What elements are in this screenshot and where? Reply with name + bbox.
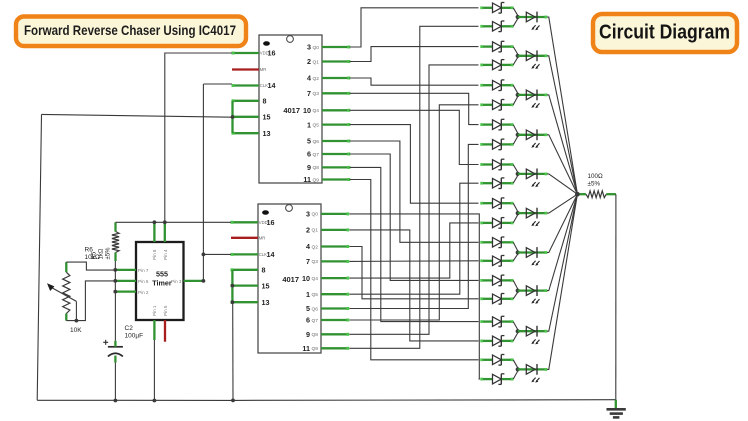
svg-text:10: 10 (302, 274, 310, 283)
svg-text:10: 10 (303, 106, 311, 115)
junction V+ at 555 pin8 (153, 220, 157, 224)
U2 left pin stub VDD (231, 221, 258, 223)
U2 left pin stub MR (231, 237, 258, 239)
LED4 (518, 129, 548, 148)
svg-text:16: 16 (268, 49, 276, 58)
svg-text:4: 4 (307, 74, 311, 83)
wire pot top to R5/pin7 junction (66, 262, 115, 270)
LED9 (518, 326, 548, 345)
junction rail at 555 pin7 (113, 268, 117, 272)
title badge Circuit Diagram (593, 14, 737, 52)
wire U1 Q0 to diode row (bus x=361.0) (350, 8, 479, 47)
U2 output pin stub Q8 (pin 9) (321, 333, 349, 335)
wire U1 Q8 to diode row (bus x=380.8) (350, 167, 479, 321)
svg-text:2: 2 (307, 57, 311, 66)
wire pin2 rail down to C2 (114, 292, 116, 341)
wire D10 cathode to LED5 anode junction (513, 176, 518, 184)
svg-text:Pin 3: Pin 3 (171, 279, 182, 284)
diode D14 (steering, LED7 lower) (480, 256, 513, 267)
wire D12 cathode to LED6 anode junction (513, 215, 518, 223)
IC U1 4017 body and pin labels (259, 35, 322, 184)
svg-text:1: 1 (307, 120, 311, 129)
diode D5 (steering, LED3 upper) (480, 80, 513, 91)
diode D9 (steering, LED5 upper) (480, 159, 513, 170)
svg-text:10kΩ: 10kΩ (85, 254, 100, 261)
svg-text:13: 13 (263, 129, 271, 138)
label R5 1kOhm 5% (rotated) (92, 247, 112, 260)
wire U1 pin15 to left rail (42, 114, 233, 117)
wire U1 Q3 to diode row (bus x=468.7) (350, 93, 479, 124)
svg-text:Forward Reverse Chaser Using I: Forward Reverse Chaser Using IC4017 (24, 22, 236, 38)
U1 output pin stub Q7 (pin 6) (322, 153, 350, 155)
svg-text:100µF: 100µF (125, 333, 144, 340)
potentiometer R6 10K body (63, 272, 70, 313)
wire D2 cathode to LED1 anode junction (513, 19, 518, 27)
svg-text:MR: MR (259, 235, 266, 240)
svg-text:VDD: VDD (260, 51, 269, 56)
U2 output pin stub Q2 (pin 4) (321, 245, 349, 247)
wire R7 to ground rail (615, 194, 617, 400)
wire LED9 cathode to common node (547, 194, 577, 331)
diode D13 (steering, LED7 upper) (480, 237, 513, 248)
svg-text:4017: 4017 (283, 106, 300, 115)
junction rail at 555 pin2 (113, 290, 117, 294)
U2 left pin stub pin 13 (231, 301, 258, 303)
U2 output pin stub Q1 (pin 2) (321, 229, 349, 231)
wire V+ rail (R5 top to U2 VDD) (116, 221, 232, 223)
wire U2 Q1 to diode row (bus x=409.8) (350, 230, 479, 341)
wire U2 pins 8-15-13 tie (231, 270, 233, 302)
R7 left stub (577, 193, 586, 195)
junction node LED7 anode (516, 250, 520, 254)
diode D15 (steering, LED8 upper) (480, 275, 513, 286)
U1 output pin stub Q3 (pin 7) (322, 92, 350, 94)
svg-text:6: 6 (306, 316, 310, 325)
U2 output pin stub Q6 (pin 5) (321, 307, 349, 309)
wire U2 Q8 to diode row (bus x=429.0) (350, 65, 479, 334)
LED5 (518, 169, 548, 188)
junction common cathode node overlay (575, 192, 580, 197)
junction U2 pin15 (231, 284, 235, 288)
junction node LED4 anode (516, 133, 520, 137)
IC U3 555 timer body and pin labels (136, 242, 184, 320)
svg-text:5: 5 (306, 304, 310, 313)
junction U1 pin15 (231, 115, 235, 119)
wire U1 Q2 to diode row (bus x=371.0) (350, 78, 479, 85)
svg-text:7: 7 (306, 257, 310, 266)
svg-text:MR: MR (260, 67, 267, 72)
svg-text:Pin 7: Pin 7 (138, 268, 149, 273)
svg-text:10K: 10K (70, 327, 82, 334)
svg-text:Pin 1: Pin 1 (152, 305, 157, 316)
diode D11 (steering, LED6 upper) (480, 198, 513, 209)
resistor R5 1k vertical (112, 232, 119, 253)
svg-text:VDD: VDD (259, 220, 268, 225)
diode D19 (steering, LED10 upper) (480, 355, 513, 366)
wire U2 Q6 to diode row (bus x=468.3) (350, 144, 479, 308)
svg-text:Q2: Q2 (312, 244, 319, 250)
U1 output pin stub Q6 (pin 5) (322, 140, 350, 142)
svg-text:±5%: ±5% (588, 180, 601, 187)
junction rail at 555 pin6 (113, 279, 117, 283)
diode D8 (steering, LED4 lower) (480, 139, 513, 150)
svg-text:Q7: Q7 (313, 152, 320, 158)
junction V+ at 555 pin4 / U1 VDD drop (163, 220, 167, 224)
resistor R5 top stub (114, 222, 116, 231)
junction node LED5 anode (516, 172, 520, 176)
U3 pin 5 stub (unconnected, red) (164, 320, 166, 342)
wire U2 Q4 to diode row (bus x=449.8) (350, 223, 479, 278)
U3 pin 8 stub (top, to V+ rail) (153, 222, 155, 242)
wire U1 Q1 to diode row (bus x=371.0) (350, 47, 479, 62)
junction node LED3 anode (516, 93, 520, 97)
left rail vertical (37, 114, 41, 400)
wire LED8 cathode to common node (547, 194, 577, 290)
U3 pin 7 stub (115, 269, 136, 271)
wire U1 VDD to V+ rail (165, 53, 232, 222)
svg-text:8: 8 (263, 97, 267, 106)
wire D4 cathode to LED2 anode junction (513, 58, 518, 65)
junction node LED8 anode (516, 289, 520, 293)
svg-text:9: 9 (306, 330, 310, 339)
diode D12 (steering, LED6 lower) (480, 218, 513, 229)
U1 left pin stub pin 13 (232, 132, 259, 134)
wire R5 bottom rail to 555 pins (114, 261, 116, 292)
svg-text:Pin 6: Pin 6 (138, 279, 149, 284)
U1 output pin stub Q0 (pin 3) (322, 46, 350, 48)
U3 pin 6 stub (115, 280, 136, 282)
junction ground at 555 pin1 (153, 399, 157, 403)
wire CLK bus to U1 CLK (203, 83, 232, 85)
U2 left pin stub CLK (231, 253, 258, 255)
svg-text:16: 16 (267, 218, 275, 227)
junction node LED9 anode (516, 329, 520, 333)
wire LED1 cathode to common node (547, 17, 577, 194)
wire U1 Q6 to diode row (bus x=399.9) (350, 141, 479, 242)
svg-text:6: 6 (307, 150, 311, 159)
U1 output pin stub Q4 (pin 10) (322, 109, 350, 111)
wire CLK bus to U2 CLK (203, 253, 231, 255)
junction node LED1 anode (516, 15, 520, 19)
svg-text:Q3: Q3 (313, 91, 320, 97)
svg-text:15: 15 (263, 113, 271, 122)
svg-text:8: 8 (262, 266, 266, 275)
wire D13 cathode to LED7 anode junction (513, 242, 518, 251)
svg-text:5: 5 (307, 137, 311, 146)
junction ground at C2 (114, 399, 118, 403)
wire LED4 cathode to common node (547, 135, 577, 194)
svg-text:15: 15 (262, 281, 270, 290)
wire U1 Q9 to diode row (bus x=370.8) (350, 180, 479, 360)
U1 left pin stub CLK (232, 84, 259, 86)
wire U2 Q7 to diode row (bus x=439.3) (350, 105, 479, 320)
resistor R5 bottom stub (114, 253, 116, 262)
svg-text:CLK: CLK (259, 252, 267, 257)
svg-text:9: 9 (307, 163, 311, 172)
diode D20 (steering, LED10 lower) (480, 374, 513, 385)
U2 output pin stub Q3 (pin 7) (321, 260, 349, 262)
wire LED10 cathode to common node (547, 194, 577, 369)
junction node LED6 anode (516, 211, 520, 215)
svg-text:Q8: Q8 (312, 332, 319, 338)
U2 output pin stub Q4 (pin 10) (321, 277, 349, 279)
svg-text:Pin 8: Pin 8 (152, 249, 157, 260)
diode D6 (steering, LED3 lower) (480, 100, 513, 111)
LED10 (518, 364, 548, 383)
svg-text:Q4: Q4 (313, 108, 320, 114)
wire U2 Q5 to diode row (bus x=459.8) (350, 183, 479, 294)
U2 output pin stub Q9 (pin 11) (321, 347, 349, 349)
LED1 (518, 12, 548, 31)
U1 left pin stub pin 15 (232, 116, 259, 118)
svg-text:Q0: Q0 (312, 212, 319, 218)
diode D18 (steering, LED9 lower) (480, 336, 513, 347)
U2 output pin stub Q5 (pin 1) (321, 293, 349, 295)
U1 output pin stub Q8 (pin 9) (322, 166, 350, 168)
LED8 (518, 285, 548, 304)
resistor R7 100 ohm (586, 191, 606, 198)
junction CLK bus at 555 pin3 (202, 279, 206, 283)
wire C2 to ground rail (114, 363, 116, 401)
wire U2 Q3 to diode row D14 (straight) (350, 260, 479, 263)
diode D7 (steering, LED4 upper) (480, 119, 513, 130)
svg-text:Q7: Q7 (312, 318, 319, 324)
wire U2 Q2 to diode row (bus x=362.0) (350, 247, 479, 299)
diode D17 (steering, LED9 upper) (480, 316, 513, 327)
wire U1 Q5 to diode row (bus x=410.4) (350, 125, 479, 204)
svg-text:1: 1 (306, 290, 310, 299)
wire 555 pin3 to CLK bus (202, 84, 204, 281)
svg-text:14: 14 (267, 250, 275, 259)
svg-text:13: 13 (262, 298, 270, 307)
svg-text:Pin 5: Pin 5 (163, 305, 168, 316)
LED7 (518, 247, 548, 266)
svg-text:Q4: Q4 (312, 276, 319, 282)
wire D6 cathode to LED3 anode junction (513, 97, 518, 105)
svg-text:2: 2 (306, 226, 310, 235)
U1 left pin stub VDD (232, 52, 259, 54)
U3 pin 3 output stub (184, 280, 204, 282)
junction node LED2 anode (516, 54, 520, 58)
svg-text:Q9: Q9 (313, 177, 320, 183)
diode D16 (steering, LED8 lower) (480, 294, 513, 305)
wire D20 cathode to LED10 anode junction (513, 371, 518, 379)
wire D15 cathode to LED8 anode junction (513, 280, 518, 289)
R7 right stub (606, 193, 616, 195)
wire D18 cathode to LED9 anode junction (513, 333, 518, 341)
svg-text:Q6: Q6 (313, 139, 320, 145)
ground rail bottom (37, 399, 616, 402)
potentiometer top stub (65, 262, 67, 272)
diode D10 (steering, LED5 lower) (480, 178, 513, 189)
wire U1 Q4 to diode row (bus x=459.3) (350, 110, 479, 164)
wire D19 cathode to LED10 anode junction (513, 360, 518, 368)
svg-text:Q8: Q8 (313, 165, 320, 171)
wire D5 cathode to LED3 anode junction (513, 85, 518, 93)
U1 output pin stub Q2 (pin 4) (322, 77, 350, 79)
wire D9 cathode to LED5 anode junction (513, 165, 518, 173)
junction node LED10 anode (516, 367, 520, 371)
junction common cathode node (575, 192, 580, 197)
svg-text:3: 3 (306, 210, 310, 219)
svg-text:11: 11 (302, 344, 310, 353)
ground symbol (607, 409, 626, 417)
potentiometer bottom stub (65, 314, 67, 321)
svg-text:Q1: Q1 (312, 228, 319, 234)
svg-text:Timer: Timer (152, 279, 172, 288)
svg-text:11: 11 (303, 175, 311, 184)
diode D4 (steering, LED2 lower) (480, 60, 513, 71)
svg-text:CLK: CLK (260, 83, 268, 88)
wire U2 pin13 to ground rail (232, 302, 234, 400)
wire pot wiper down to bottom terminal wire (75, 301, 77, 320)
wire D11 cathode to LED6 anode junction (513, 203, 518, 211)
wire pot bottom to pin6 rail (66, 281, 115, 321)
wire D8 cathode to LED4 anode junction (513, 137, 518, 145)
LED6 (518, 208, 548, 227)
svg-text:Pin 2: Pin 2 (138, 290, 149, 295)
svg-text:C2: C2 (125, 325, 134, 332)
LED3 (518, 90, 548, 109)
U1 left pin stub pin 8 (232, 100, 259, 102)
svg-text:100Ω: 100Ω (588, 173, 604, 180)
ground stub (615, 400, 617, 410)
wire LED3 cathode to common node (547, 95, 577, 194)
svg-text:Q5: Q5 (313, 122, 320, 128)
junction ground at U2 pin13 drop (231, 399, 235, 403)
svg-text:4017: 4017 (282, 275, 299, 284)
svg-text:Q0: Q0 (313, 45, 320, 51)
svg-text:Circuit Diagram: Circuit Diagram (599, 20, 730, 43)
svg-text:Q6: Q6 (312, 306, 319, 312)
svg-text:Q5: Q5 (312, 292, 319, 298)
U2 left pin stub pin 8 (231, 269, 258, 271)
junction pot wiper/bottom (75, 319, 79, 323)
U2 output pin stub Q7 (pin 6) (321, 319, 349, 321)
diode D1 (steering, LED1 upper) (480, 3, 513, 14)
wire D7 cathode to LED4 anode junction (513, 125, 518, 134)
wire U1 Q7 to diode row (bus x=390.2) (350, 154, 479, 280)
junction U2 pin13 (231, 300, 235, 304)
wire U1 pins 8-15-13 tie (231, 101, 233, 133)
U1 output pin stub Q1 (pin 2) (322, 60, 350, 62)
U1 output pin stub Q5 (pin 1) (322, 123, 350, 125)
U2 left pin stub pin 15 (231, 284, 258, 286)
U3 pin 2 stub (115, 290, 136, 292)
wire LED2 cathode to common node (547, 56, 577, 194)
wire LED7 cathode to common node (547, 194, 577, 252)
diode D2 (steering, LED1 lower) (480, 21, 513, 32)
svg-text:7: 7 (307, 89, 311, 98)
svg-text:Q3: Q3 (312, 259, 319, 265)
svg-text:Q2: Q2 (313, 76, 320, 82)
U1 left pin stub MR (232, 68, 259, 70)
wire LED5 cathode to common node (547, 174, 577, 194)
wire 555 pin1 to ground rail (153, 340, 155, 401)
wire U2 Q9 to diode row (bus x=419.8) (350, 26, 479, 348)
svg-text:Q9: Q9 (312, 346, 319, 352)
svg-text:Q1: Q1 (313, 59, 320, 65)
U3 pin 1 stub (ground) (153, 320, 155, 340)
LED2 (518, 50, 548, 69)
capacitor C2 100uF polarized (103, 340, 123, 363)
wire D17 cathode to LED9 anode junction (513, 322, 518, 330)
wire D14 cathode to LED7 anode junction (513, 254, 518, 261)
svg-text:Pin 4: Pin 4 (163, 249, 168, 260)
U2 output pin stub Q0 (pin 3) (321, 213, 349, 215)
junction CLK bus at U2 CLK (202, 253, 206, 257)
wire U2 Q0 to diode row (bus x=479.3) (350, 214, 480, 379)
svg-text:14: 14 (268, 81, 276, 90)
wire D1 cathode to LED1 anode junction (513, 8, 518, 16)
wire D16 cathode to LED8 anode junction (513, 292, 518, 299)
wire LED6 cathode to common node (547, 194, 577, 213)
svg-text:4: 4 (306, 242, 310, 251)
potentiometer wiper arrow (47, 283, 76, 301)
svg-text:555: 555 (156, 270, 168, 279)
svg-text:±5%: ±5% (106, 247, 112, 260)
diode D3 (steering, LED2 upper) (480, 41, 513, 52)
IC U2 4017 body and pin labels (258, 204, 321, 353)
title badge Forward Reverse Chaser Using IC4017 (16, 17, 246, 47)
svg-text:3: 3 (307, 43, 311, 52)
U1 output pin stub Q9 (pin 11) (322, 178, 350, 180)
wire D3 cathode to LED2 anode junction (513, 47, 518, 55)
svg-text:R6: R6 (85, 247, 94, 254)
U3 pin 4 stub (top, to V+ rail) (164, 222, 166, 242)
